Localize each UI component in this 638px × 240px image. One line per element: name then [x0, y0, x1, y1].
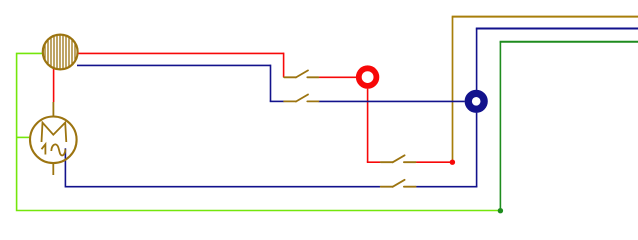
- wire navy down to switch S2 row: [270, 65, 272, 102]
- wire bright green spur to motor left terminal: [17, 136, 30, 138]
- wire red corner to switch S3: [367, 161, 381, 163]
- node junction red dot: [450, 160, 455, 165]
- lamp symbol (hatched circle): [43, 34, 78, 70]
- wire navy corner to S2: [270, 100, 284, 102]
- node junction dark green dot: [498, 208, 503, 213]
- switch S2 contact (navy circuit upper): [284, 95, 318, 102]
- wire navy vertical below blue ring: [476, 113, 478, 187]
- switch S1 contact (red circuit upper): [284, 70, 318, 77]
- motor M1 circle: [30, 117, 77, 164]
- motor M1 label digit 1: [42, 144, 46, 154]
- wire dark green top horizontal to right edge: [500, 41, 638, 43]
- wire navy from lamp lower right: [77, 64, 271, 66]
- wire navy from ring drop to switch S4: [416, 186, 478, 188]
- wire brown top horizontal to right edge: [452, 16, 638, 18]
- wire navy up to motor terminal: [64, 148, 66, 187]
- wire navy vertical above blue ring: [476, 29, 478, 91]
- wire red from lamp bottom terminal down: [53, 69, 55, 103]
- wire navy from S2 to blue terminal ring: [319, 100, 465, 102]
- wire bright green rail: lamp spur, left vertical, bottom horizontal: [17, 53, 501, 210]
- motor M1 bottom terminal stub: [52, 163, 54, 175]
- motor M1 letter M: [42, 123, 67, 142]
- red terminal ring: [359, 68, 377, 86]
- wire red from lamp right terminal: [77, 52, 283, 54]
- switch S4 contact (navy circuit lower): [381, 180, 416, 187]
- motor M1 top terminal stub: [52, 102, 54, 117]
- wire dark green right vertical: [499, 42, 501, 211]
- wire navy from S4 to motor: [65, 186, 380, 188]
- blue terminal ring: [468, 93, 484, 109]
- motor M1 label sine wave: [51, 144, 65, 155]
- wire red from S3 to brown junction: [416, 161, 453, 163]
- wire red from S1 to red terminal ring: [319, 76, 357, 78]
- switch S3 contact (red circuit lower): [381, 155, 416, 162]
- wire red from ring bottom down: [367, 89, 369, 163]
- wire brown vertical from red junction up: [452, 17, 454, 163]
- wire navy top horizontal to right edge: [476, 28, 638, 30]
- wire red down to switch S1: [283, 53, 285, 78]
